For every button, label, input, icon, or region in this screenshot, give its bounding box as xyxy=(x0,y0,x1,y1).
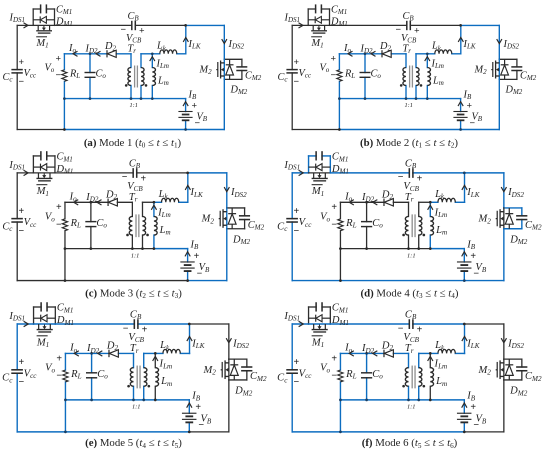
wire: transformer secondary leads (panel f) xyxy=(418,353,420,399)
node battery bottom junction (panel a) xyxy=(184,128,187,131)
wire: output ground drop (panel c) xyxy=(64,249,66,281)
diode D_M2 (panel d) xyxy=(505,214,513,225)
capacitor C_M1 (panel c) xyxy=(41,151,47,160)
transistor M1 (panel e) xyxy=(37,324,53,332)
wire: R_L branch (panel b) xyxy=(338,54,340,99)
arrow I_D2 (panel d) xyxy=(373,200,378,205)
wire: rail through M2 channel (panel e) xyxy=(228,359,230,380)
svg-text:+: + xyxy=(417,324,423,335)
wire: top rail right section (panel a) xyxy=(186,24,225,26)
resistor R_L (panel b) xyxy=(337,70,342,82)
svg-text:1:1: 1:1 xyxy=(407,404,416,411)
wire: C_o branch (panel c) xyxy=(90,202,92,248)
svg-text:−: − xyxy=(56,370,62,381)
svg-text:−: − xyxy=(470,118,476,129)
wire: right rail upper (I_DS2) (panel c) xyxy=(226,173,228,208)
diode D2 (panel f) xyxy=(384,350,393,357)
svg-text:+: + xyxy=(19,206,25,217)
node secondary bottom junction (panel d) xyxy=(417,247,420,250)
arrow I_Lm (panel a) xyxy=(150,57,155,62)
capacitor C_o (panel c) xyxy=(85,222,96,227)
capacitor C_M1 (panel f) xyxy=(316,302,322,311)
capacitor C_M2 (panel a) xyxy=(236,67,247,71)
arrow I_o (panel a) xyxy=(73,51,78,56)
svg-text:+: + xyxy=(19,357,25,368)
capacitor C_M2 (panel e) xyxy=(241,367,252,371)
wire: inner rail right (panel a) xyxy=(152,98,185,100)
arrow I_LK (panel c) xyxy=(185,185,190,190)
diode D_M2 (panel e) xyxy=(230,365,238,376)
wire: top rail left (panel b) xyxy=(292,24,308,26)
node secondary bottom junction (panel b) xyxy=(415,97,418,100)
wire: L_m branch (panel a) xyxy=(151,54,153,99)
wire: battery branch (panel a) xyxy=(185,99,187,130)
wire: I_LK vertical link (panel c) xyxy=(187,173,189,202)
wire: secondary-to-Lm link (panel e) xyxy=(144,352,156,354)
wire: right rail upper (I_DS2) (panel f) xyxy=(503,324,505,359)
arrow I_LK (panel e) xyxy=(187,336,192,341)
wire: top rail M1 to C_B (panel f) xyxy=(330,323,409,325)
wire: bottom rail right (panel b) xyxy=(461,129,500,131)
wire: top rail right section (panel b) xyxy=(461,24,500,26)
wire: secondary-to-Lm link (panel c) xyxy=(142,201,153,203)
wire: M2 snubber box outline (panel b) xyxy=(499,59,517,79)
arrow I_Lm (panel d) xyxy=(428,205,433,210)
wire: M1 snubber box outline (panel c) xyxy=(33,156,55,173)
svg-text:+: + xyxy=(195,402,201,413)
svg-text:−: − xyxy=(331,70,337,81)
capacitor C_M1 (panel a) xyxy=(41,4,47,13)
wire: top rail C_B to node LK (panel f) xyxy=(413,323,464,325)
resistor R_L (panel d) xyxy=(338,219,343,231)
wire: secondary-to-Lm link (panel a) xyxy=(141,53,152,55)
transformer Tr polarity dot left (panel a) xyxy=(125,84,128,87)
wire: output ground drop (panel a) xyxy=(63,99,65,130)
wire: M2 snubber box outline (panel c) xyxy=(227,208,245,229)
node battery bottom junction (panel d) xyxy=(463,279,466,282)
capacitor C_o (panel e) xyxy=(86,373,97,378)
transformer Tr polarity dot left (panel c) xyxy=(126,234,129,237)
wire: transformer primary leads (panel d) xyxy=(408,202,410,248)
diode D2 (panel d) xyxy=(384,199,393,206)
battery V_B (panel e) xyxy=(182,413,197,422)
node LK junction on top rail (panel c) xyxy=(186,171,189,174)
wire: C_o branch (panel f) xyxy=(366,353,368,399)
inductor L_m (panel f) xyxy=(430,368,433,387)
wire: top rail C_B to node LK (panel e) xyxy=(138,323,189,325)
svg-text:−: − xyxy=(19,226,25,237)
capacitor C_M1 (panel e) xyxy=(41,302,47,311)
diode D_M2 (panel a) xyxy=(226,65,234,75)
diode D_M2 (panel f) xyxy=(505,365,513,376)
transformer Tr secondary winding (panel c) xyxy=(142,216,145,235)
wire: top rail M1 to C_B (panel d) xyxy=(330,172,409,174)
transformer Tr primary winding (panel a) xyxy=(128,68,131,86)
svg-text:(b) Mode 2 (t1 ≤ t ≤ t2): (b) Mode 2 (t1 ≤ t ≤ t2) xyxy=(360,137,458,150)
svg-text:−: − xyxy=(473,420,479,431)
wire: M1 snubber box outline (panel b) xyxy=(308,9,329,25)
wire: inner rail left (panel a) xyxy=(64,98,131,100)
wire: output top rail (diode D2 path) (panel e) xyxy=(65,352,133,354)
arrow I_o (panel b) xyxy=(348,51,353,56)
node L_m top junction (panel b) xyxy=(426,52,429,55)
svg-text:+: + xyxy=(414,26,420,37)
transistor M1 (panel d) xyxy=(312,173,328,181)
node LK junction on top rail (panel b) xyxy=(459,24,462,27)
svg-text:1:1: 1:1 xyxy=(131,252,139,259)
resistor R_L (panel e) xyxy=(63,370,68,382)
wire: battery branch (panel b) xyxy=(460,99,462,130)
svg-text:+: + xyxy=(192,101,198,112)
node primary bottom junction (panel a) xyxy=(130,97,133,100)
wire: bottom rail right (panel c) xyxy=(188,280,227,282)
wire: output top rail (diode D2 path) (panel a) xyxy=(64,53,131,55)
wire: L_k series link (panel c) xyxy=(154,201,188,203)
battery V_B (panel f) xyxy=(457,413,472,422)
capacitor C_B (panel c) xyxy=(133,168,137,178)
transistor M2 (panel c) xyxy=(219,209,227,228)
svg-text:(e) Mode 5 (t4 ≤ t ≤ t5): (e) Mode 5 (t4 ≤ t ≤ t5) xyxy=(85,437,182,450)
wire: R_L branch (panel d) xyxy=(339,202,341,248)
transistor M2 (panel f) xyxy=(496,360,504,379)
wire: rail through M2 channel (panel f) xyxy=(503,359,505,380)
wire: bottom rail left (panel d) xyxy=(292,280,340,282)
battery V_B (panel a) xyxy=(178,112,192,121)
svg-text:+: + xyxy=(139,26,145,37)
node L_m top junction (panel e) xyxy=(154,352,157,355)
node C_o bottom junction (panel b) xyxy=(364,97,367,100)
wire: C_o branch (panel d) xyxy=(366,202,368,248)
node bottom-left junction (panel f) xyxy=(339,430,342,433)
wire: output ground drop (panel e) xyxy=(64,400,66,432)
transformer Tr polarity dot right (panel f) xyxy=(423,385,426,388)
wire: L_k series link (panel a) xyxy=(152,53,186,55)
node C_o bottom junction (panel e) xyxy=(90,398,93,401)
node bottom-left junction (panel a) xyxy=(63,128,66,131)
transistor M1 (panel c) xyxy=(36,173,52,181)
diode D_M2 (panel b) xyxy=(501,65,509,75)
transformer Tr polarity dot right (panel d) xyxy=(423,234,426,237)
wire: I_LK vertical link (panel e) xyxy=(189,324,191,353)
node output ground junction (panel f) xyxy=(339,398,342,401)
label M1 (panel f) xyxy=(311,336,324,349)
wire: L_m branch (panel c) xyxy=(153,202,155,248)
wire: secondary-to-Lm link (panel f) xyxy=(419,352,431,354)
wire: top rail M1 to C_B (panel c) xyxy=(55,172,133,174)
svg-text:+: + xyxy=(294,357,300,368)
svg-text:(a) Mode 1 (t0 ≤ t ≤ t1): (a) Mode 1 (t0 ≤ t ≤ t1) xyxy=(84,137,182,150)
node C_o top junction (panel a) xyxy=(89,52,92,55)
arrow I_B (panel e) xyxy=(187,403,192,408)
arrow I_DS1 (panel d) xyxy=(299,170,304,175)
arrow I_D2 (panel a) xyxy=(96,51,101,56)
arrow I_D2 (panel e) xyxy=(98,351,103,356)
inductor L_k (panel a) xyxy=(160,50,177,54)
wire: output top rail (diode D2 path) (panel c) xyxy=(65,201,132,203)
node C_o bottom junction (panel c) xyxy=(90,247,93,250)
arrow I_LK (panel f) xyxy=(462,336,467,341)
wire: right rail lower (panel c) xyxy=(226,229,228,281)
inductor L_m (panel e) xyxy=(155,368,158,387)
arrow I_o (panel c) xyxy=(74,200,79,205)
wire: inner rail left (panel b) xyxy=(339,98,406,100)
panel (e) Mode 5 schematic xyxy=(2,302,267,433)
resistor R_L (panel f) xyxy=(338,370,343,382)
transformer Tr core (panel c) xyxy=(136,214,139,237)
wire: bottom rail left (panel f) xyxy=(292,431,340,433)
node primary bottom junction (panel b) xyxy=(405,97,408,100)
wire: inner rail middle (panel b) xyxy=(406,98,427,100)
wire: top rail left (panel c) xyxy=(17,172,33,174)
wire: inner rail right (panel c) xyxy=(154,248,188,250)
transformer Tr core (panel e) xyxy=(137,366,140,389)
wire: transformer secondary leads (panel d) xyxy=(418,202,420,248)
node battery bottom junction (panel b) xyxy=(459,128,462,131)
capacitor C_c (panel e) xyxy=(11,370,23,373)
capacitor C_B (panel a) xyxy=(132,21,136,30)
arrow I_LK (panel d) xyxy=(462,185,467,190)
arrow I_B (panel a) xyxy=(183,102,188,107)
svg-text:−: − xyxy=(195,118,201,129)
svg-text:+: + xyxy=(470,402,476,413)
wire: transformer primary leads (panel c) xyxy=(131,202,133,248)
wire: R_L branch (panel f) xyxy=(339,353,341,399)
transformer Tr core (panel a) xyxy=(135,66,138,88)
wire: C_o branch (panel e) xyxy=(91,353,93,399)
wire: top rail left (panel e) xyxy=(17,323,33,325)
wire: top rail M1 to C_B (panel e) xyxy=(55,323,134,325)
svg-text:−: − xyxy=(473,269,479,280)
wire: inner rail middle (panel e) xyxy=(134,399,156,401)
wire: bottom rail right (panel f) xyxy=(464,431,504,433)
node battery bottom junction (panel f) xyxy=(463,430,466,433)
node primary bottom junction (panel d) xyxy=(407,247,410,250)
node output ground junction (panel a) xyxy=(63,97,66,100)
wire: battery branch (panel c) xyxy=(187,249,189,281)
node C_o top junction (panel e) xyxy=(90,352,93,355)
arrow I_Lm (panel b) xyxy=(425,57,430,62)
resistor R_L (panel a) xyxy=(62,70,67,82)
transformer Tr polarity dot right (panel c) xyxy=(146,234,149,237)
label M1 (panel c) xyxy=(36,185,49,198)
wire: L_m branch (panel f) xyxy=(429,353,431,399)
wire: bottom rail middle (panel a) xyxy=(64,129,185,131)
wire: right rail lower (panel d) xyxy=(503,229,505,281)
wire: L_k series link (panel f) xyxy=(430,352,464,354)
diode D2 (panel a) xyxy=(107,50,116,57)
wire: D_M2 vertical leads (panel f) xyxy=(508,359,510,380)
arrow I_o (panel d) xyxy=(349,200,354,205)
wire: D_M2 vertical leads (panel b) xyxy=(504,59,506,79)
wire: I_LK vertical link (panel a) xyxy=(185,25,187,53)
resistor R_L (panel c) xyxy=(62,219,67,231)
node L_m top junction (panel f) xyxy=(429,352,432,355)
wire: C_c left branch (panel f) xyxy=(291,324,293,432)
wire: inner rail right (panel f) xyxy=(430,399,464,401)
wire: L_m branch (panel e) xyxy=(154,353,156,399)
node L_m bottom junction (panel b) xyxy=(426,97,429,100)
node LK junction on top rail (panel a) xyxy=(184,24,187,27)
wire: top rail C_B to node LK (panel a) xyxy=(135,24,185,26)
inductor L_k (panel c) xyxy=(162,198,179,202)
transformer Tr core (panel b) xyxy=(410,66,413,88)
wire: top rail left (panel d) xyxy=(292,172,308,174)
wire: rail through M1 channel (panel a) xyxy=(33,24,54,26)
transformer Tr core (panel f) xyxy=(412,366,415,389)
svg-text:−: − xyxy=(56,219,62,230)
svg-text:+: + xyxy=(467,101,473,112)
capacitor C_B (panel b) xyxy=(407,21,411,30)
transformer Tr primary winding (panel e) xyxy=(130,368,133,387)
arrow I_B (panel f) xyxy=(462,403,467,408)
label M1 (panel b) xyxy=(311,37,324,50)
node L_m bottom junction (panel c) xyxy=(153,247,156,250)
panel (d) Mode 4 schematic xyxy=(277,151,542,282)
transformer Tr secondary winding (panel b) xyxy=(416,68,419,86)
svg-text:−: − xyxy=(331,370,337,381)
arrow I_Lm (panel c) xyxy=(151,205,156,210)
node bottom-left junction (panel e) xyxy=(64,430,67,433)
wire: rail through M2 channel (panel b) xyxy=(498,59,500,79)
node L_m bottom junction (panel f) xyxy=(429,398,432,401)
transistor M1 (panel f) xyxy=(312,324,328,332)
wire: bottom rail middle (panel e) xyxy=(65,431,189,433)
wire: top rail left (panel a) xyxy=(17,24,33,26)
wire: bottom rail middle (panel d) xyxy=(340,280,464,282)
transistor M1 (panel b) xyxy=(311,25,327,33)
diode D_M1 (panel b) xyxy=(308,16,329,23)
wire: inner rail middle (panel f) xyxy=(409,399,431,401)
svg-text:−: − xyxy=(294,77,300,88)
diode D_M1 (panel d) xyxy=(309,164,331,171)
node secondary bottom junction (panel a) xyxy=(140,97,143,100)
wire: top rail M1 to C_B (panel b) xyxy=(330,24,407,26)
arrow I_Lm (panel f) xyxy=(428,356,433,361)
diode D_M1 (panel e) xyxy=(34,315,56,322)
wire: M2 snubber box outline (panel f) xyxy=(504,359,522,380)
capacitor C_c (panel a) xyxy=(11,70,22,73)
svg-text:+: + xyxy=(331,353,337,364)
node output ground junction (panel c) xyxy=(64,247,67,250)
wire: right rail lower (panel b) xyxy=(498,79,500,129)
arrow I_DS1 (panel b) xyxy=(299,23,304,28)
node primary bottom junction (panel f) xyxy=(407,398,410,401)
transformer Tr polarity dot left (panel e) xyxy=(127,385,130,388)
panel (b) Mode 2 schematic xyxy=(278,4,537,130)
arrow I_DS2 (panel c) xyxy=(224,187,229,192)
transformer Tr polarity dot right (panel a) xyxy=(145,84,148,87)
capacitor C_M2 (panel d) xyxy=(516,216,527,220)
wire: C_c left branch (panel d) xyxy=(291,173,293,281)
arrow I_o (panel e) xyxy=(74,351,79,356)
node output ground junction (panel b) xyxy=(338,97,341,100)
wire: L_k series link (panel d) xyxy=(430,201,464,203)
transformer Tr polarity dot left (panel f) xyxy=(402,385,405,388)
wire: rail through M1 channel (panel e) xyxy=(34,323,56,325)
inductor L_m (panel a) xyxy=(152,68,155,86)
wire: right rail upper (I_DS2) (panel d) xyxy=(503,173,505,208)
wire: rail through M1 channel (panel c) xyxy=(33,172,55,174)
label M1 (panel a) xyxy=(36,37,49,50)
wire: L_k series link (panel b) xyxy=(427,53,461,55)
svg-text:−: − xyxy=(56,70,62,81)
wire: top rail right section (panel f) xyxy=(464,323,504,325)
wire: battery branch (panel f) xyxy=(463,400,465,432)
node C_o top junction (panel b) xyxy=(364,52,367,55)
wire: rail through M2 channel (panel d) xyxy=(503,208,505,229)
arrow I_B (panel b) xyxy=(458,102,463,107)
arrow I_D2 (panel c) xyxy=(97,200,102,205)
node L_m top junction (panel c) xyxy=(153,201,156,204)
transformer Tr secondary winding (panel a) xyxy=(141,68,144,86)
svg-text:+: + xyxy=(140,173,146,184)
wire: right rail lower (panel a) xyxy=(223,79,225,129)
arrow I_o (panel f) xyxy=(349,351,354,356)
transformer Tr primary winding (panel f) xyxy=(405,368,408,387)
wire: D_M2 vertical leads (panel d) xyxy=(508,208,510,229)
wire: L_m branch (panel b) xyxy=(426,54,428,99)
node LK junction on top rail (panel d) xyxy=(463,171,466,174)
wire: top rail right section (panel e) xyxy=(189,323,229,325)
svg-text:1:1: 1:1 xyxy=(130,102,138,109)
wire: I_LK vertical link (panel b) xyxy=(460,25,462,53)
wire: top rail C_B to node LK (panel c) xyxy=(137,172,188,174)
transformer Tr polarity dot left (panel d) xyxy=(402,234,405,237)
transformer Tr secondary winding (panel e) xyxy=(144,368,147,387)
diode D2 (panel c) xyxy=(108,199,117,206)
wire: output top rail (diode D2 path) (panel f) xyxy=(340,352,408,354)
arrow I_B (panel d) xyxy=(462,252,467,257)
arrow I_D2 (panel b) xyxy=(371,51,376,56)
wire: bottom rail left (panel a) xyxy=(17,129,64,131)
arrow I_DS2 (panel b) xyxy=(497,39,502,44)
capacitor C_c (panel b) xyxy=(286,70,297,73)
svg-text:−: − xyxy=(197,269,203,280)
wire: M2 snubber box outline (panel d) xyxy=(504,208,522,229)
arrow I_DS1 (panel f) xyxy=(299,321,304,326)
capacitor C_o (panel b) xyxy=(360,73,371,78)
svg-text:(f) Mode 6 (t5 ≤ t ≤ t6): (f) Mode 6 (t5 ≤ t ≤ t6) xyxy=(362,437,458,450)
wire: bottom rail left (panel e) xyxy=(17,431,65,433)
wire: secondary-to-Lm link (panel d) xyxy=(419,201,431,203)
svg-text:+: + xyxy=(56,353,62,364)
wire: C_c left branch (panel c) xyxy=(16,173,18,281)
wire: D_M2 vertical leads (panel a) xyxy=(229,59,231,79)
node C_o top junction (panel d) xyxy=(365,201,368,204)
arrow I_Lm (panel e) xyxy=(153,356,158,361)
wire: top rail C_B to node LK (panel d) xyxy=(413,172,464,174)
capacitor C_B (panel e) xyxy=(134,319,138,329)
transistor M2 (panel b) xyxy=(491,61,499,79)
svg-text:+: + xyxy=(142,324,148,335)
wire: C_o branch (panel b) xyxy=(364,54,366,99)
wire: top rail right section (panel d) xyxy=(464,172,504,174)
svg-text:+: + xyxy=(417,173,423,184)
panel (c) Mode 3 schematic xyxy=(2,151,264,282)
wire: bottom rail middle (panel c) xyxy=(65,280,188,282)
capacitor C_M1 (panel b) xyxy=(316,4,322,13)
wire: inner rail left (panel c) xyxy=(65,248,132,250)
transformer Tr primary winding (panel b) xyxy=(403,68,406,86)
wire: M2 snubber box outline (panel a) xyxy=(224,59,242,79)
inductor L_k (panel f) xyxy=(438,349,455,353)
arrow I_B (panel c) xyxy=(185,252,190,257)
transistor M2 (panel e) xyxy=(221,360,229,379)
wire: output ground drop (panel b) xyxy=(338,99,340,130)
svg-text:−: − xyxy=(331,219,337,230)
svg-text:1:1: 1:1 xyxy=(405,102,413,109)
node C_o bottom junction (panel f) xyxy=(365,398,368,401)
